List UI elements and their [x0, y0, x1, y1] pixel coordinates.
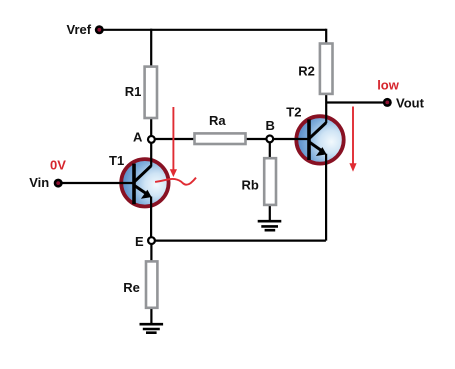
svg-text:R2: R2	[298, 63, 315, 78]
svg-text:Ra: Ra	[209, 113, 226, 128]
svg-text:low: low	[377, 77, 400, 92]
svg-text:R1: R1	[125, 84, 142, 99]
svg-text:Vin: Vin	[29, 175, 49, 190]
svg-text:Re: Re	[123, 280, 140, 295]
svg-text:Rb: Rb	[242, 177, 259, 192]
svg-text:Vref: Vref	[67, 22, 92, 37]
svg-text:A: A	[133, 130, 143, 145]
svg-text:T1: T1	[109, 153, 124, 168]
svg-text:T2: T2	[286, 105, 301, 120]
svg-text:B: B	[266, 118, 275, 133]
svg-text:0V: 0V	[50, 157, 66, 172]
svg-text:E: E	[135, 234, 144, 249]
svg-text:Vout: Vout	[396, 96, 425, 111]
